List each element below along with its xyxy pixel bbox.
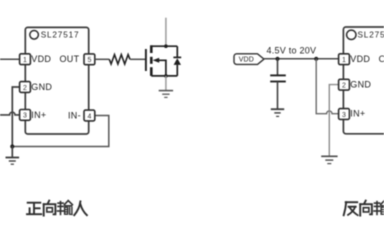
resistor R1 (gate series) [109, 55, 130, 64]
ground GND4 (under U2 GND) [321, 156, 337, 163]
wire VDD rail to U2 pin 1 [264, 58, 338, 60]
wire from left edge to U1 pin 1 [0, 58, 20, 60]
wire IN+ input from left edge to U1 pin 3 (hops over ground drop) [0, 112, 20, 115]
caption 正向输入 (forward input) drawn strokes [27, 201, 87, 216]
svg-text:4.5V to 20V: 4.5V to 20V [267, 45, 317, 55]
svg-text:VDD: VDD [350, 54, 370, 64]
ground GND1 (bottom-left) [6, 158, 20, 165]
svg-text:GND: GND [350, 80, 371, 90]
wire source to ground [165, 76, 167, 90]
svg-text:GND: GND [31, 82, 52, 92]
svg-text:VDD: VDD [31, 54, 51, 64]
node drain junction dot [164, 44, 168, 48]
wire IN+ drop from rail to U2 pin 3 (hops over ground drop) [316, 59, 338, 114]
svg-text:IN-: IN- [68, 110, 81, 120]
wire bottom feedback from U1 pin 4 to ground junction [12, 116, 109, 147]
svg-text:1: 1 [342, 57, 346, 64]
transistor Q1 body arrow [153, 58, 160, 63]
svg-text:SL27517: SL27517 [358, 31, 384, 40]
op-amp U1 (SL27517) body [25, 27, 88, 134]
node junction dot at IN+ drop [314, 57, 318, 61]
wire GND drop from U2 pin 2 down to ground [329, 85, 338, 156]
U1 pin 3 box [20, 110, 31, 121]
svg-text:VDD: VDD [239, 57, 254, 64]
U2 pin 2 box [339, 79, 350, 90]
U1 pin-1 indicator circle [30, 31, 39, 40]
caption 反向输入 (reverse input, clipped) drawn strokes [344, 201, 384, 216]
svg-text:3: 3 [23, 113, 27, 120]
wire U1 OUT to gate resistor [95, 58, 110, 60]
node junction dot at ground [10, 144, 14, 148]
U2 pin 1 box [339, 54, 350, 65]
svg-text:2: 2 [23, 85, 27, 92]
capacitor C1 bottom lead [277, 82, 279, 109]
transistor Q1 N-MOSFET gate bar [145, 49, 147, 71]
U2 pin-1 indicator circle [347, 30, 356, 39]
capacitor C1 top lead [277, 59, 279, 75]
ground GND2 (under Q1 source) [159, 91, 173, 98]
svg-text:IN+: IN+ [350, 109, 365, 119]
U2 pin 3 box [339, 109, 350, 120]
connector VDD flag [234, 54, 264, 65]
transistor Q1 source connection [151, 75, 177, 77]
capacitor C1 plates [270, 74, 286, 76]
svg-text:IN+: IN+ [31, 110, 46, 120]
transistor Q1 drain connection [151, 45, 177, 47]
wire GND drop from U1 pin 2 down to ground junction [12, 87, 19, 147]
U1 pin 2 box [20, 82, 31, 93]
svg-text:SL27517: SL27517 [41, 30, 80, 39]
diode D1 body diode of Q1 [173, 46, 181, 76]
svg-text:OUT: OUT [379, 54, 384, 64]
svg-text:4: 4 [87, 113, 91, 120]
node source junction dot [164, 74, 168, 78]
svg-text:OUT: OUT [60, 54, 80, 64]
U1 pin 1 box [20, 54, 31, 65]
svg-text:3: 3 [342, 112, 346, 119]
svg-text:5: 5 [87, 57, 91, 64]
svg-text:2: 2 [342, 83, 346, 90]
transistor Q1 channel segments [150, 45, 153, 76]
wire stub junction to ground symbol [11, 147, 13, 158]
U1 pin 5 box [84, 54, 95, 65]
node junction dot at capacitor tap [275, 57, 279, 61]
U1 pin 4 box [84, 110, 95, 121]
wire drain stub up [165, 18, 167, 47]
svg-text:1: 1 [23, 57, 27, 64]
ground GND3 (under C1) [271, 109, 284, 116]
op-amp U2 (SL27517) body, clipped at right edge [343, 27, 384, 134]
wire resistor to Q1 gate [130, 58, 145, 60]
